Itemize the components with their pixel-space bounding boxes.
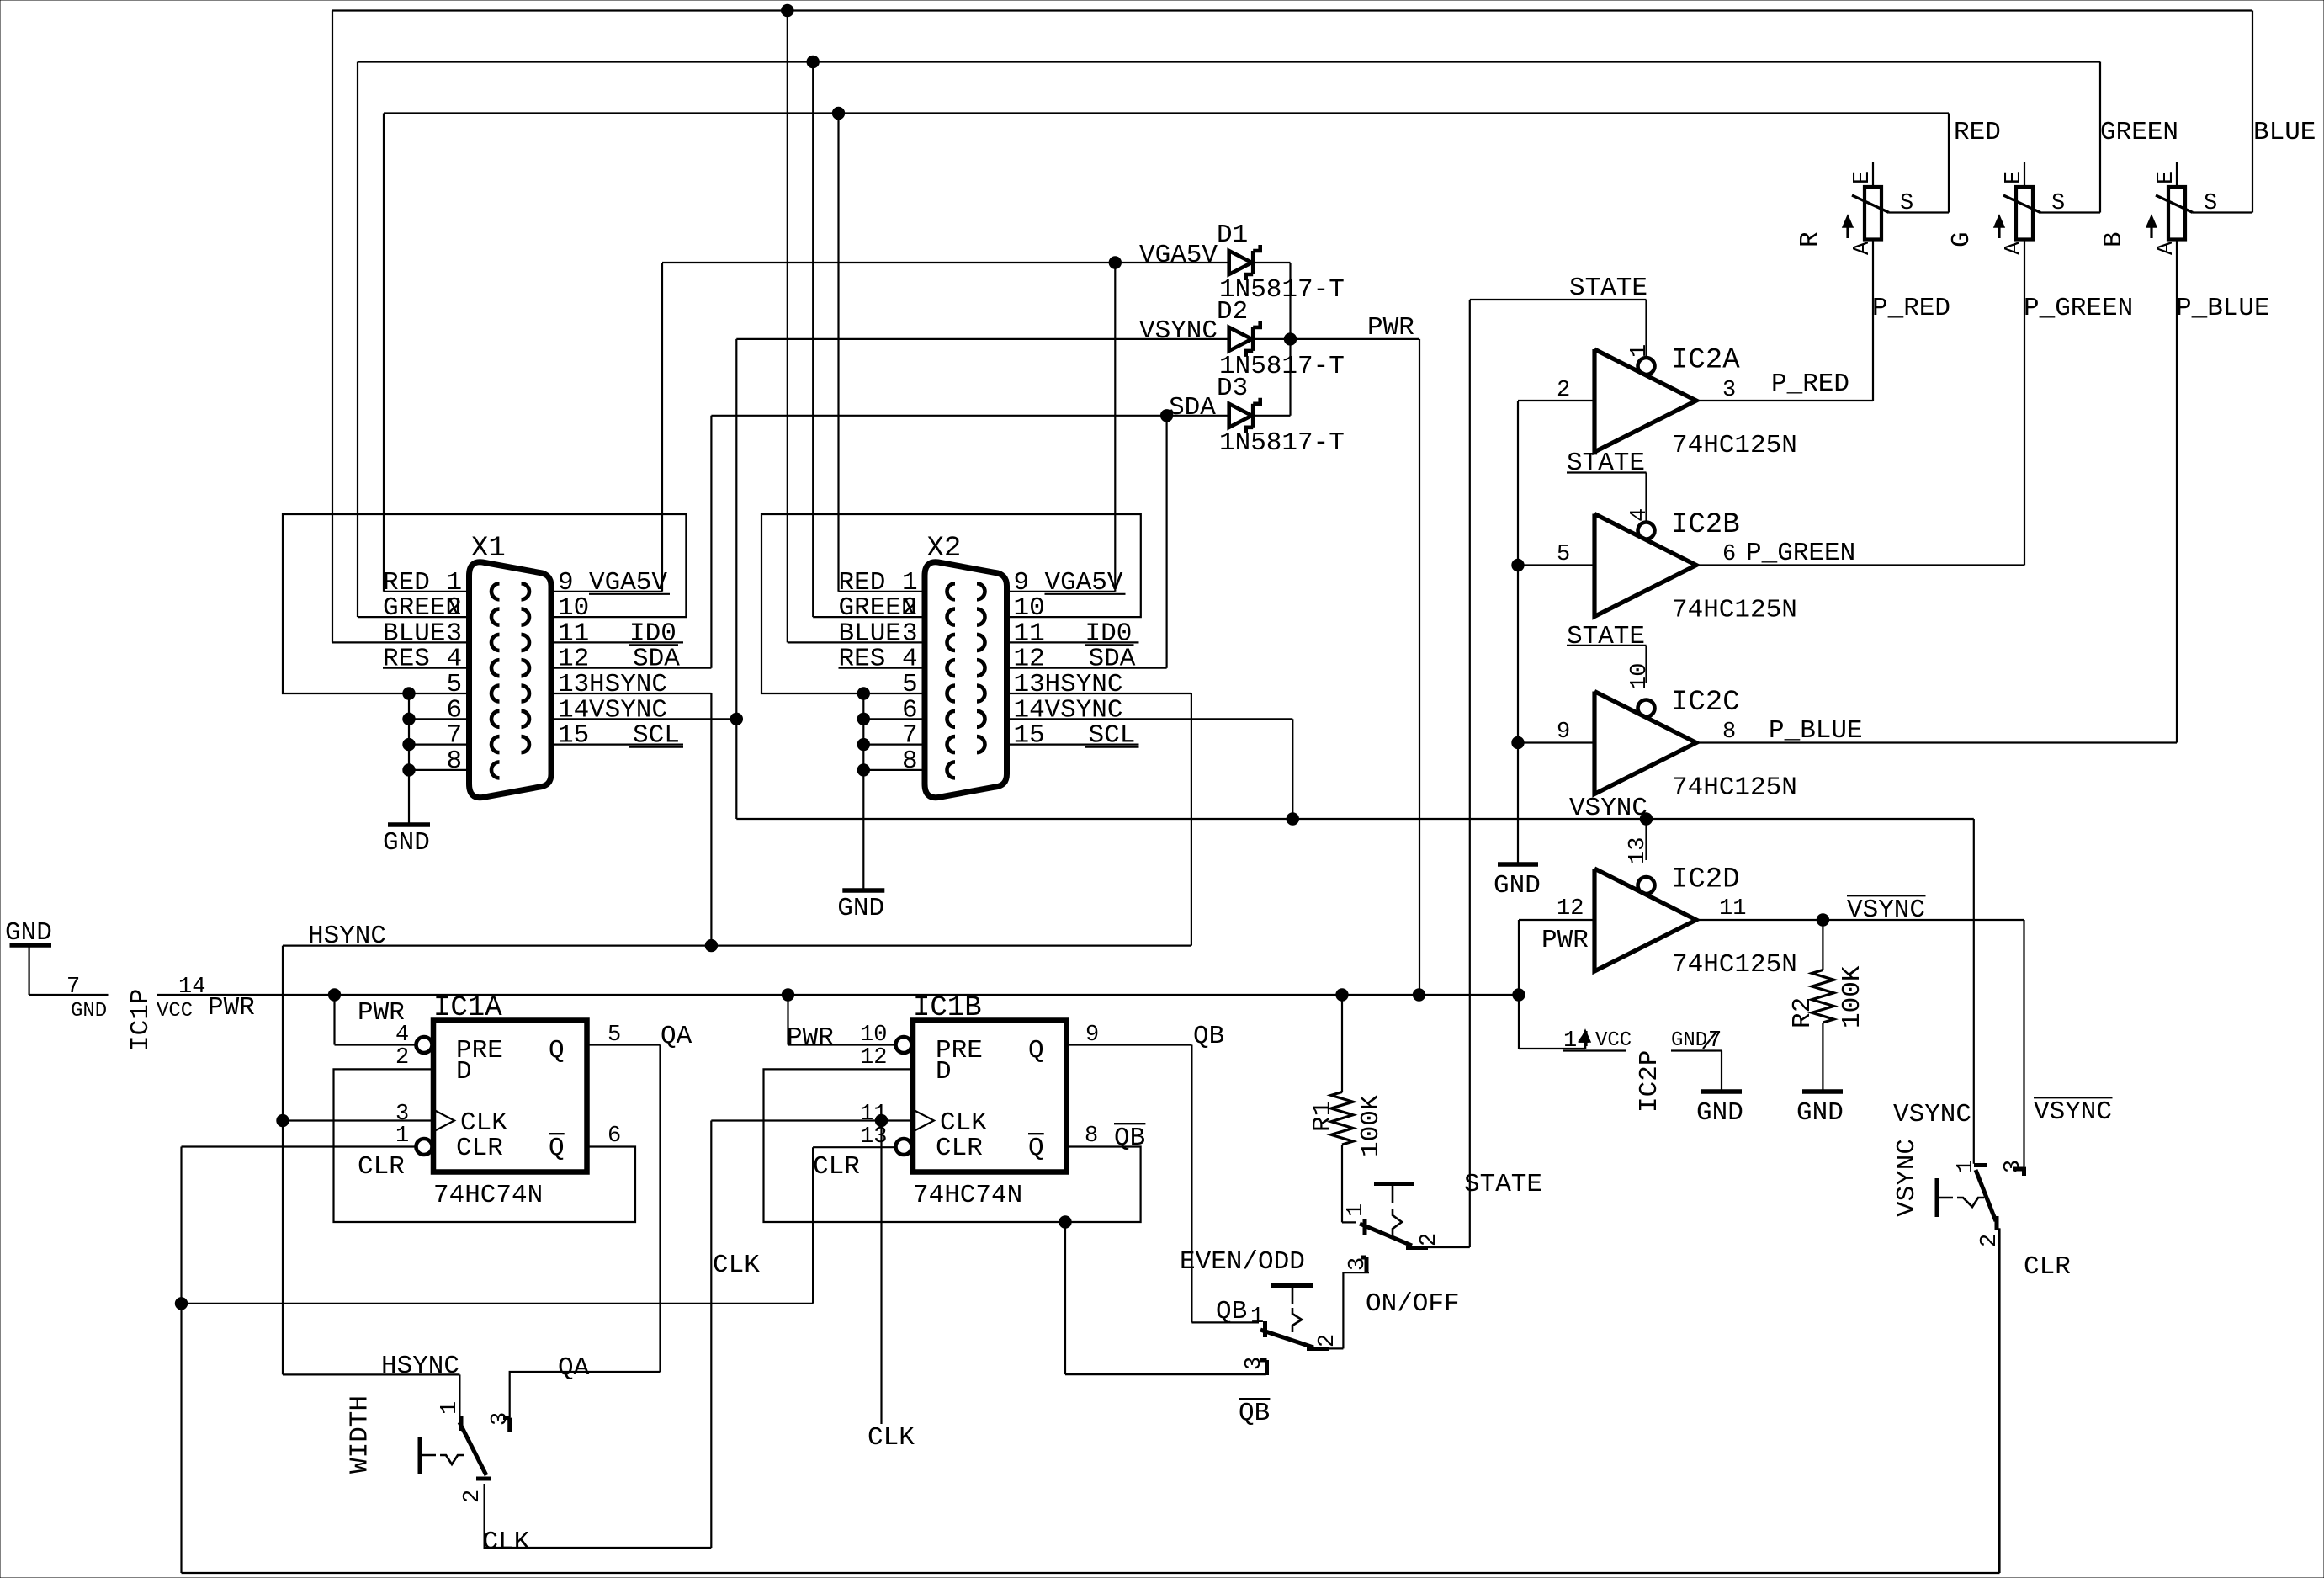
svg-text:GND: GND xyxy=(837,894,884,923)
svg-text:1: 1 xyxy=(395,1124,409,1149)
svg-text:15: 15 xyxy=(558,721,589,751)
svg-text:2: 2 xyxy=(1977,1234,2003,1247)
svg-text:BLUE: BLUE xyxy=(2253,118,2316,147)
svg-text:CLR: CLR xyxy=(358,1152,405,1182)
svg-text:SCL: SCL xyxy=(1089,721,1136,751)
svg-text:5: 5 xyxy=(1557,542,1570,567)
svg-text:GND: GND xyxy=(1671,1029,1707,1052)
svg-text:15: 15 xyxy=(1014,721,1045,751)
svg-text:74HC74N: 74HC74N xyxy=(433,1181,543,1210)
svg-text:IC2P: IC2P xyxy=(1635,1050,1664,1113)
svg-text:6: 6 xyxy=(608,1124,621,1149)
svg-text:P_GREEN: P_GREEN xyxy=(2024,294,2133,323)
svg-text:CLR: CLR xyxy=(456,1134,503,1163)
svg-text:2: 2 xyxy=(1557,378,1570,403)
svg-text:6: 6 xyxy=(1722,542,1736,567)
svg-text:S: S xyxy=(1900,191,1913,216)
svg-text:3: 3 xyxy=(2001,1160,2026,1173)
svg-text:A: A xyxy=(2002,241,2027,255)
svg-text:GND: GND xyxy=(1696,1098,1743,1128)
svg-text:QA: QA xyxy=(558,1353,590,1383)
svg-text:PWR: PWR xyxy=(787,1023,834,1053)
svg-text:74HC125N: 74HC125N xyxy=(1672,596,1797,625)
svg-text:IC2B: IC2B xyxy=(1671,509,1740,541)
svg-text:10: 10 xyxy=(1627,663,1653,690)
svg-text:HSYNC: HSYNC xyxy=(308,922,386,951)
svg-text:GND: GND xyxy=(71,1000,107,1023)
svg-text:IC1A: IC1A xyxy=(433,992,502,1024)
svg-text:CLR: CLR xyxy=(2024,1252,2071,1282)
svg-text:1: 1 xyxy=(1954,1160,1979,1173)
svg-text:GND: GND xyxy=(1796,1098,1844,1128)
svg-text:X2: X2 xyxy=(927,533,962,565)
svg-text:SCL: SCL xyxy=(633,721,680,751)
svg-text:D: D xyxy=(456,1057,472,1087)
svg-text:7: 7 xyxy=(66,975,80,1000)
svg-text:STATE: STATE xyxy=(1464,1170,1542,1199)
svg-text:8: 8 xyxy=(447,746,463,776)
svg-text:Q: Q xyxy=(1028,1134,1044,1163)
svg-text:12: 12 xyxy=(860,1045,887,1071)
svg-text:WIDTH: WIDTH xyxy=(346,1395,375,1474)
svg-text:1: 1 xyxy=(438,1401,463,1415)
svg-text:QB: QB xyxy=(1216,1297,1247,1326)
svg-text:RED: RED xyxy=(1954,118,2001,147)
svg-text:74HC74N: 74HC74N xyxy=(913,1181,1022,1210)
svg-text:A: A xyxy=(1850,241,1876,255)
svg-text:14: 14 xyxy=(178,975,205,1000)
svg-text:100K: 100K xyxy=(1356,1094,1386,1157)
svg-text:D2: D2 xyxy=(1217,297,1248,327)
svg-text:QA: QA xyxy=(661,1022,692,1051)
svg-text:11: 11 xyxy=(1719,896,1746,922)
svg-text:QB: QB xyxy=(1193,1022,1224,1051)
svg-text:4: 4 xyxy=(1627,508,1653,522)
svg-text:VGA5V: VGA5V xyxy=(1045,568,1123,598)
svg-text:STATE: STATE xyxy=(1567,622,1645,651)
svg-text:2: 2 xyxy=(1417,1233,1442,1246)
svg-text:2: 2 xyxy=(395,1045,409,1071)
svg-text:IC2D: IC2D xyxy=(1671,864,1740,896)
svg-text:8: 8 xyxy=(1085,1124,1098,1149)
svg-text:8: 8 xyxy=(1722,720,1736,745)
svg-text:ON/OFF: ON/OFF xyxy=(1366,1289,1460,1319)
svg-text:X1: X1 xyxy=(471,533,506,565)
svg-text:4: 4 xyxy=(395,1023,409,1048)
svg-text:A: A xyxy=(2154,241,2179,255)
svg-text:GND: GND xyxy=(1494,871,1541,901)
svg-text:STATE: STATE xyxy=(1567,449,1645,478)
svg-text:P_BLUE: P_BLUE xyxy=(2176,294,2270,323)
svg-text:EVEN/ODD: EVEN/ODD xyxy=(1180,1247,1305,1277)
svg-text:IC2A: IC2A xyxy=(1671,345,1740,377)
svg-text:D: D xyxy=(936,1057,952,1087)
svg-text:R2: R2 xyxy=(1788,997,1817,1028)
svg-text:QB: QB xyxy=(1239,1399,1270,1428)
svg-text:VSYNC: VSYNC xyxy=(1892,1139,1922,1217)
svg-text:74HC125N: 74HC125N xyxy=(1672,431,1797,460)
svg-text:12: 12 xyxy=(1557,896,1584,922)
svg-text:E: E xyxy=(2002,171,2027,184)
svg-text:P_RED: P_RED xyxy=(1771,369,1849,399)
svg-text:VCC: VCC xyxy=(1595,1029,1632,1052)
svg-text:1: 1 xyxy=(1250,1304,1264,1330)
svg-text:E: E xyxy=(2154,171,2179,184)
svg-text:GND: GND xyxy=(383,828,430,858)
svg-text:CLK: CLK xyxy=(483,1528,530,1557)
svg-text:PWR: PWR xyxy=(1367,313,1414,343)
svg-text:RES: RES xyxy=(383,645,430,674)
svg-text:IC1P: IC1P xyxy=(126,989,156,1051)
svg-text:VGA5V: VGA5V xyxy=(1139,241,1218,270)
svg-text:100K: 100K xyxy=(1838,965,1867,1028)
svg-text:STATE: STATE xyxy=(1569,274,1647,303)
svg-text:74HC125N: 74HC125N xyxy=(1672,950,1797,980)
svg-text:3: 3 xyxy=(488,1412,513,1426)
svg-text:VGA5V: VGA5V xyxy=(589,568,667,598)
svg-text:P_BLUE: P_BLUE xyxy=(1769,716,1863,746)
svg-text:2: 2 xyxy=(460,1490,485,1503)
svg-text:IC2C: IC2C xyxy=(1671,687,1740,719)
svg-text:8: 8 xyxy=(902,746,918,776)
svg-text:B: B xyxy=(2099,231,2129,247)
svg-text:Q: Q xyxy=(549,1036,565,1065)
svg-text:PWR: PWR xyxy=(208,993,255,1023)
svg-text:CLK: CLK xyxy=(868,1423,915,1453)
svg-text:D3: D3 xyxy=(1217,374,1248,403)
svg-text:Q: Q xyxy=(1028,1036,1044,1065)
svg-text:CLR: CLR xyxy=(936,1134,983,1163)
svg-text:CLK: CLK xyxy=(713,1251,760,1280)
svg-text:GREEN: GREEN xyxy=(2100,118,2178,147)
svg-text:1: 1 xyxy=(1627,344,1653,358)
svg-text:74HC125N: 74HC125N xyxy=(1672,773,1797,803)
svg-text:PWR: PWR xyxy=(1541,926,1589,955)
svg-text:P_GREEN: P_GREEN xyxy=(1746,539,1855,568)
svg-text:VSYNC: VSYNC xyxy=(1847,895,1925,925)
svg-text:Q: Q xyxy=(549,1134,565,1163)
svg-text:R1: R1 xyxy=(1308,1101,1338,1132)
svg-text:5: 5 xyxy=(608,1023,621,1048)
svg-text:9: 9 xyxy=(1557,720,1570,745)
svg-text:RES: RES xyxy=(839,645,886,674)
svg-text:R: R xyxy=(1796,231,1825,247)
svg-text:S: S xyxy=(2204,191,2217,216)
svg-text:1N5817-T: 1N5817-T xyxy=(1219,428,1345,458)
svg-text:CLR: CLR xyxy=(813,1152,860,1182)
svg-text:VSYNC: VSYNC xyxy=(1139,316,1218,346)
svg-text:QB: QB xyxy=(1114,1124,1145,1153)
svg-text:2: 2 xyxy=(1315,1334,1340,1347)
svg-text:IC1B: IC1B xyxy=(913,992,982,1024)
svg-text:E: E xyxy=(1850,171,1876,184)
svg-text:VSYNC: VSYNC xyxy=(1893,1100,1971,1129)
svg-text:3: 3 xyxy=(1722,378,1736,403)
svg-text:SDA: SDA xyxy=(1169,393,1216,422)
svg-text:VSYNC: VSYNC xyxy=(1569,794,1647,823)
svg-text:VCC: VCC xyxy=(157,1000,193,1023)
svg-text:HSYNC: HSYNC xyxy=(381,1352,459,1381)
svg-text:D1: D1 xyxy=(1217,220,1248,250)
svg-text:10: 10 xyxy=(860,1023,887,1048)
svg-text:G: G xyxy=(1947,231,1976,247)
svg-text:P_RED: P_RED xyxy=(1872,294,1950,323)
svg-text:1: 1 xyxy=(1344,1203,1369,1217)
svg-text:9: 9 xyxy=(1085,1023,1099,1048)
svg-text:13: 13 xyxy=(860,1124,887,1150)
svg-text:VSYNC: VSYNC xyxy=(2034,1097,2112,1127)
svg-text:S: S xyxy=(2051,191,2065,216)
